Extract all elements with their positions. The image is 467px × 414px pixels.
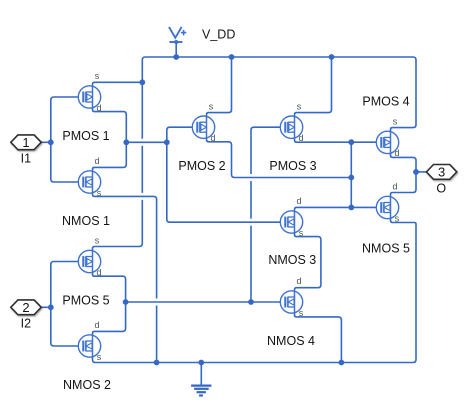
- wire NMOS1 source drop (lower): [156, 306, 158, 363]
- wire PMOS1 source to VDD rail: [93, 82, 143, 86]
- wire NMOS3 source to NMOS4 drain: [295, 233, 321, 292]
- wire output node to port3: [416, 171, 426, 173]
- svg-text:s: s: [299, 228, 304, 238]
- svg-text:s: s: [209, 101, 214, 111]
- wire PMOS3 gate to NOT(I2) vertical (lower): [250, 226, 252, 302]
- wire I2 net to PMOS5/NMOS2 gates: [51, 262, 84, 347]
- junction I1 port node: [48, 139, 54, 145]
- svg-text:d: d: [94, 156, 99, 166]
- wire VDD rail left segment (PMOS5 source to below I1 crossing): [93, 200, 143, 251]
- transistor NMOS 2 (NMOS): [78, 335, 100, 357]
- svg-text:V_DD: V_DD: [202, 28, 235, 42]
- junction node Y middle (PMOS2 drain): [348, 175, 354, 181]
- junction node Y top (PMOS3 drain / PMOS4 gate): [348, 139, 354, 145]
- junction V_DD on top rail: [173, 54, 179, 60]
- wire V_DD stem: [175, 43, 177, 58]
- ground: [191, 363, 211, 396]
- junction I2 port node: [48, 304, 54, 310]
- svg-text:I2: I2: [21, 317, 31, 331]
- wire PMOS3 gate to NOT(I2) vertical (middle): [250, 181, 252, 219]
- junction NOT(I2) branch at NMOS4 gate: [248, 299, 254, 305]
- wire NMOS1 source drop (upper): [93, 193, 157, 299]
- svg-text:PMOS 1: PMOS 1: [62, 129, 109, 143]
- transistor PMOS 3 (PMOS): [280, 116, 302, 138]
- wire node NOT(I1) to PMOS2 gate and NMOS3 gate: [167, 127, 285, 222]
- transistor NMOS 3 (NMOS): [280, 211, 302, 233]
- svg-text:NMOS 4: NMOS 4: [267, 334, 315, 348]
- wire PMOS2 source to VDD rail: [207, 57, 232, 117]
- wire VDD top rail and right drop to PMOS4 source: [142, 57, 416, 139]
- svg-text:s: s: [95, 236, 100, 246]
- power V_DD symbol: [169, 27, 186, 44]
- transistor PMOS 2 (PMOS): [192, 116, 214, 138]
- transistor PMOS 4 (PMOS): [376, 131, 398, 153]
- svg-text:s: s: [97, 352, 102, 362]
- svg-text:O: O: [436, 181, 446, 195]
- svg-text:NMOS 3: NMOS 3: [268, 253, 316, 267]
- junction NMOS4 source on ground rail: [339, 360, 345, 366]
- wire PMOS5 drain to NMOS2 drain: [93, 273, 126, 336]
- svg-text:NMOS 2: NMOS 2: [63, 378, 111, 392]
- junction PMOS1 source on rail: [139, 79, 145, 85]
- wire node Y vertical: [350, 142, 352, 207]
- wire PMOS2 drain to node Y: [207, 138, 352, 178]
- svg-text:PMOS 5: PMOS 5: [62, 294, 109, 308]
- wire port1 stub: [41, 141, 51, 143]
- wire NMOS5 drain to output node: [391, 172, 417, 197]
- svg-text:d: d: [298, 133, 303, 143]
- svg-text:2: 2: [22, 300, 29, 315]
- wire NMOS4 source to ground rail: [295, 313, 342, 363]
- svg-text:PMOS 2: PMOS 2: [178, 159, 225, 173]
- junction NOT(I1) drain node: [123, 139, 129, 145]
- junction node Y bottom (NMOS5 gate): [348, 205, 354, 211]
- junction ground tap on rail: [198, 360, 204, 366]
- wire PMOS3 drain to PMOS4 gate: [295, 138, 382, 142]
- svg-text:d: d: [296, 196, 301, 206]
- wire port2 stub: [41, 306, 51, 308]
- transistor PMOS 5 (PMOS): [78, 250, 100, 272]
- port 2 (I2): [11, 300, 41, 315]
- svg-text:s: s: [97, 188, 102, 198]
- junction NMOS1 source on ground rail: [154, 360, 160, 366]
- svg-text:NMOS 5: NMOS 5: [362, 242, 410, 256]
- svg-text:d: d: [96, 103, 101, 113]
- svg-text:PMOS 4: PMOS 4: [362, 94, 409, 108]
- svg-text:d: d: [296, 276, 301, 286]
- svg-text:s: s: [393, 117, 398, 127]
- wire node NOT(I2) horizontal to NMOS4 gate: [126, 301, 286, 303]
- svg-text:d: d: [94, 320, 99, 330]
- wire NMOS3 drain to NMOS5 gate: [295, 207, 382, 211]
- wire PMOS3 gate to NOT(I2) vertical (upper): [251, 127, 285, 174]
- svg-text:s: s: [299, 308, 304, 318]
- svg-text:s: s: [95, 71, 100, 81]
- wire PMOS3 source to VDD rail: [295, 57, 332, 117]
- svg-text:3: 3: [438, 165, 445, 180]
- wire node NOT(I1) horizontal: [126, 141, 167, 143]
- wire PMOS1 drain to NMOS1 drain: [93, 108, 127, 171]
- transistor PMOS 1 (PMOS): [78, 86, 100, 108]
- svg-text:s: s: [395, 213, 400, 223]
- svg-text:d: d: [392, 182, 397, 192]
- junction output node O: [413, 169, 419, 175]
- port 1 (I1): [11, 135, 41, 150]
- svg-text:PMOS 3: PMOS 3: [269, 159, 316, 173]
- junction PMOS3 source on top rail: [329, 54, 335, 60]
- transistor NMOS 5 (NMOS): [376, 196, 398, 218]
- transistor NMOS 4 (NMOS): [280, 291, 302, 313]
- wire VDD rail left segment (between crossings): [141, 146, 143, 193]
- svg-text:d: d: [96, 267, 101, 277]
- svg-text:d: d: [394, 148, 399, 158]
- junction PMOS2 source on top rail: [229, 54, 235, 60]
- wire PMOS4 drain to output node: [391, 153, 417, 172]
- junction NOT(I1) branch node: [164, 139, 170, 145]
- junction NOT(I2) drain node: [123, 299, 129, 305]
- svg-text:s: s: [297, 101, 302, 111]
- wire I1 net to PMOS1/NMOS1 gates: [51, 97, 84, 182]
- svg-text:I1: I1: [21, 152, 31, 166]
- wire ground rail from NMOS2 source and NMOS5 source riser: [93, 219, 417, 363]
- svg-text:NMOS 1: NMOS 1: [62, 214, 110, 228]
- svg-text:1: 1: [22, 135, 29, 150]
- svg-text:d: d: [210, 133, 215, 143]
- port 3 (O): [426, 165, 456, 180]
- transistor NMOS 1 (NMOS): [78, 171, 100, 193]
